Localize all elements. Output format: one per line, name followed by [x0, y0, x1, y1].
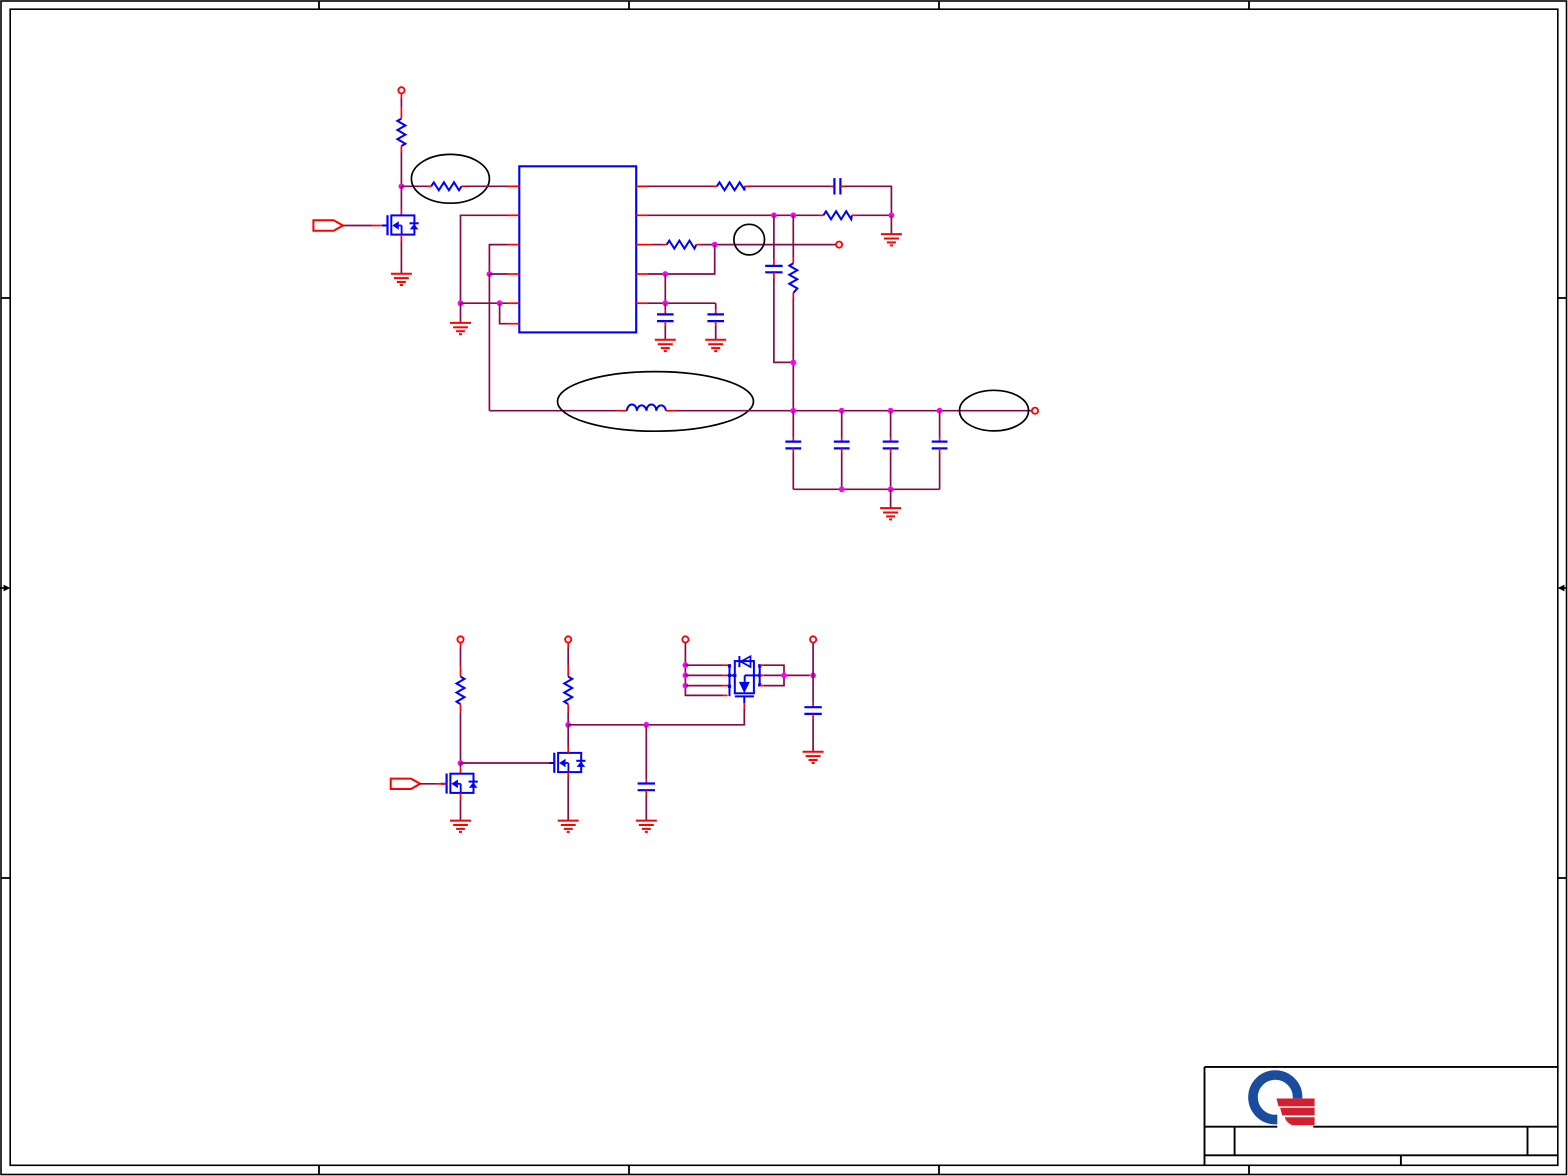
ground below C3: [705, 340, 726, 351]
wire U1 pinR5 run: [648, 302, 716, 304]
wire SW1 to R2: [401, 185, 431, 187]
wire GATE1 to Q1 gate: [343, 225, 382, 227]
wire C7 to bottom rail: [890, 448, 892, 489]
wire L1 to output port: [666, 410, 1032, 412]
IC U1: [519, 166, 636, 332]
transistor Q3: [549, 753, 586, 773]
node VOUT1 junction: [790, 408, 796, 414]
node V1 junction: [771, 212, 777, 218]
right center arrow marker: [1558, 585, 1567, 592]
capacitor C1: [834, 178, 840, 194]
wire U1 pin4 to SW rail: [489, 273, 507, 275]
ground below bottom rail: [880, 508, 901, 519]
capacitor C7: [883, 442, 899, 449]
wire Q4 source pin3: [685, 685, 729, 687]
wire C9 to ground: [645, 790, 647, 820]
port P4: [457, 636, 463, 642]
ground below FB: [881, 234, 902, 245]
wire ground rail to ground: [460, 303, 462, 323]
capacitor C6: [834, 442, 850, 449]
wire U1 pin5 run: [461, 302, 508, 304]
wire C10 to ground: [812, 714, 814, 752]
wire C2 to ground: [664, 321, 666, 340]
node VOUT4 junction: [937, 408, 943, 414]
node COMP junction: [712, 242, 718, 248]
wire C4 down to node SWB: [774, 272, 793, 362]
resistor R2: [431, 182, 461, 190]
inductor L1: [627, 405, 666, 411]
wire Q4 source pin2: [685, 674, 729, 676]
node Q4D1 junction: [781, 673, 787, 679]
ground below Q3: [558, 821, 579, 832]
wire V2 to R6: [792, 215, 794, 263]
capacitor C4: [765, 266, 782, 272]
resistor R6: [789, 263, 797, 293]
wire R6 down to SW row: [792, 293, 794, 411]
node Q4S3 junction: [683, 683, 689, 689]
node SWRAIL junction: [487, 271, 493, 277]
resistor R7: [457, 677, 465, 705]
node Q4D2 junction: [810, 673, 816, 679]
wire Q1 source to ground: [400, 235, 402, 274]
wire Q4 drain loop: [760, 665, 784, 685]
port P7: [810, 636, 816, 642]
node pin5 junction: [497, 300, 503, 306]
node pinR5 junction: [662, 300, 668, 306]
ellipse callout at output: [960, 390, 1029, 431]
node V2 junction: [790, 212, 796, 218]
wire P4 to R7: [460, 643, 462, 677]
wire SW1 to Q1 drain: [400, 186, 402, 215]
wire GATE2 to Q2 gate: [420, 783, 447, 785]
node FB junction: [889, 212, 895, 218]
wire U1 pinR2 run: [648, 214, 823, 216]
node Q4S1 junction: [683, 662, 689, 668]
node VOUT3 junction: [888, 408, 894, 414]
wire U1 pin2 to ground rail: [461, 215, 508, 303]
circle callout on row3: [734, 224, 765, 255]
resistor R1: [397, 119, 405, 153]
input port tag GATE1: [313, 220, 343, 230]
wire C3 to ground: [715, 321, 717, 340]
wire P1 to R1: [400, 93, 402, 118]
ground below Q2: [450, 821, 471, 832]
transistor Q4: [728, 656, 761, 703]
port P2: [836, 242, 842, 248]
wire VOUT to C7: [890, 411, 892, 442]
wire U1 pin3 to SW rail: [489, 245, 507, 274]
wire U1 pinR4 run: [648, 245, 715, 274]
capacitor C10: [804, 707, 821, 714]
wire SW rail to L1: [489, 410, 627, 412]
wire VOUT to C8: [939, 411, 941, 442]
port P3: [1032, 408, 1038, 414]
wire C6 to bottom rail: [841, 448, 843, 489]
node VGC junction: [643, 722, 649, 728]
node SW1 junction: [399, 183, 405, 189]
node VOUT2 junction: [839, 408, 845, 414]
port P6: [682, 636, 688, 642]
capacitor C9: [638, 784, 655, 791]
node G2A junction: [458, 760, 464, 766]
wire U1 pin6 to pin5: [500, 303, 508, 324]
company logo: [1253, 1075, 1315, 1130]
wire pinR5 down to C2: [664, 303, 666, 314]
wire C1 to node FB: [840, 186, 891, 215]
wire VOUT to C5: [792, 411, 794, 442]
resistor R3: [717, 182, 745, 190]
wire SW rail down to inductor row: [488, 274, 490, 411]
node Q4S2 junction: [683, 673, 689, 679]
wire Q4 drain out: [760, 674, 810, 676]
wire Q2 source to ground: [460, 793, 462, 821]
wire R1 to node SW1: [400, 153, 402, 187]
ellipse callout around R2: [411, 154, 489, 203]
ground below C2: [655, 340, 676, 351]
capacitor C5: [785, 442, 801, 449]
title block grid: [1205, 1067, 1558, 1165]
node BRAIL2 junction: [888, 486, 894, 492]
bottom rail wire: [793, 488, 939, 490]
wire C8 to bottom rail: [939, 448, 941, 489]
wire Q3 source to ground: [567, 772, 569, 821]
wire U1 pinR1 to R3: [648, 185, 717, 187]
resistor R5: [667, 241, 697, 249]
wire P5 to R8: [567, 643, 569, 677]
resistor R8: [564, 677, 572, 705]
node pinR4 junction: [662, 271, 668, 277]
wire VGC to C9: [645, 725, 647, 784]
node VG junction: [565, 722, 571, 728]
wire V1 to C4: [773, 215, 775, 266]
wire R7 to node G2A: [460, 704, 462, 763]
wire R2 to U1 pin1: [462, 185, 508, 187]
input port tag GATE2: [391, 779, 421, 789]
node SWB junction: [790, 360, 796, 366]
wire VOUT to C6: [841, 411, 843, 442]
ellipse callout around L1: [558, 372, 754, 432]
resistor R4: [823, 211, 852, 219]
node BRAIL1 junction: [839, 486, 845, 492]
wire R5 to port P2: [696, 244, 836, 246]
wire G2A to Q2 drain: [460, 763, 462, 774]
wire C5 to bottom rail: [792, 448, 794, 489]
wire pinR5 to C3: [715, 303, 717, 314]
transistor Q2: [441, 774, 478, 794]
capacitor C8: [932, 442, 948, 449]
capacitor C2: [657, 314, 674, 321]
IC U1 pin stubs: [508, 186, 649, 323]
port P5: [565, 636, 571, 642]
wire R4 to node FB: [852, 214, 892, 216]
wire R8 to node VG: [567, 704, 569, 725]
transistor Q1: [382, 215, 419, 235]
left center arrow marker: [0, 585, 10, 592]
node GNDRAIL junction: [458, 300, 464, 306]
ground below C9: [636, 821, 657, 832]
wire VG to Q3 drain: [567, 725, 569, 753]
ground below Q1: [391, 274, 412, 285]
capacitor C3: [707, 314, 724, 321]
wire G2A to Q3 gate: [461, 762, 555, 764]
wire P7 to C10: [812, 643, 814, 708]
port P1: [398, 87, 404, 93]
wire P6 rail: [685, 643, 727, 696]
ground below rail: [450, 323, 471, 334]
wire Q4 source pin1: [685, 664, 729, 666]
wire bottom rail to ground: [890, 489, 892, 508]
wire FB to ground: [890, 215, 892, 234]
ground below C10: [803, 752, 824, 763]
wire VG run to Q4 gate: [568, 703, 744, 725]
wire pinR4 to pinR5: [664, 274, 666, 303]
wire R3 to C1: [744, 185, 834, 187]
wire U1 pinR3 to R5: [648, 244, 667, 246]
